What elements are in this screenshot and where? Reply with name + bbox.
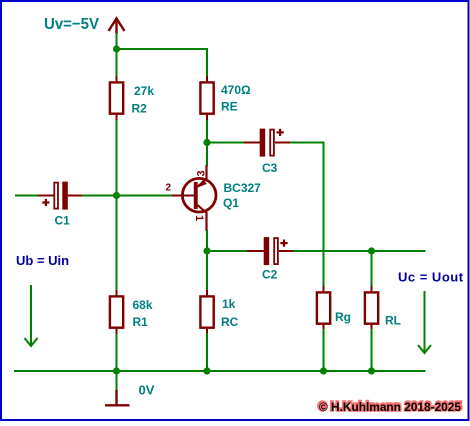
resistor RE pins [206,76,208,83]
node: emitter junction [203,139,210,146]
svg-text:1k: 1k [222,297,236,311]
wire: RC bottom [206,333,208,371]
capacitor C2 [264,237,278,265]
svg-text:470Ω: 470Ω [221,83,251,97]
resistor RL [365,292,378,323]
wire: Rg bottom [323,329,325,371]
wire: C3 right down to Rg [290,143,324,288]
svg-text:Rg: Rg [335,310,351,324]
svg-text:3: 3 [196,170,208,176]
power arrow (Uv supply) [109,18,125,34]
svg-text:2: 2 [166,183,172,194]
wire: C2 left [207,250,248,252]
wire: RL bottom [371,329,373,371]
input arrow [25,285,38,346]
svg-text:RL: RL [385,314,401,328]
transistor Q1 [172,178,217,213]
resistor RL pins [371,286,373,293]
resistor Rg [317,292,330,323]
svg-text:Uv=−5V: Uv=−5V [44,16,99,33]
svg-text:RC: RC [221,315,239,329]
ground [105,390,130,405]
node: Rg rail junction [320,367,327,374]
wire: left column bottom (R1 to 0V rail) [116,333,118,371]
capacitor C1 [54,182,68,210]
svg-text:RE: RE [221,100,238,114]
resistor R2 [110,82,123,113]
wire: ground drop [116,371,118,391]
svg-text:C3: C3 [262,161,278,175]
wire: C3 left [207,142,245,144]
capacitor C1 pins [38,195,54,197]
resistor RE [200,82,213,113]
node: RL rail junction [368,367,375,374]
resistor R1 pins [116,290,118,297]
node: power junction [113,45,120,52]
node: RC rail junction [203,367,210,374]
node: RL junction [368,247,375,254]
svg-text:C2: C2 [262,268,278,282]
node: ground junction [113,367,120,374]
plus mark C2 [280,240,287,247]
wire: base [117,195,173,197]
node: collector junction [203,247,210,254]
svg-text:R1: R1 [133,315,149,329]
output arrow [418,291,431,353]
wire: left column (R2 to R1) [116,120,118,291]
capacitor C2 pins [247,250,264,252]
svg-text:1: 1 [193,215,205,221]
svg-text:BC327: BC327 [224,181,262,195]
svg-text:27k: 27k [134,84,154,98]
wire: power column top (arrow to R2) [116,33,118,77]
wire: 0V rail [14,370,426,372]
resistor R1 [110,296,123,327]
svg-text:Ub = Uin: Ub = Uin [16,253,69,268]
svg-text:68k: 68k [133,298,153,312]
plus mark C1 [42,199,49,206]
svg-text:© H.Kuhlmann 2018-2025: © H.Kuhlmann 2018-2025 [319,400,461,414]
wire: RE to emitter (C3 tap) [206,120,208,166]
wire: output row [293,250,426,252]
plus mark C3 [277,129,284,136]
wire: input left [15,195,39,197]
svg-text:R2: R2 [132,102,148,116]
wire: C1 to base junction [82,195,117,197]
resistor RC pins [206,290,208,297]
svg-text:0V: 0V [139,383,155,398]
svg-text:Q1: Q1 [223,196,239,210]
wire: RL column top [371,251,373,287]
capacitor C3 pins [244,142,260,144]
capacitor C3 [260,129,274,157]
wire: collector down to RC [206,230,208,291]
svg-text:C1: C1 [55,213,71,227]
svg-text:Uc = Uout: Uc = Uout [398,270,464,285]
node: base junction [113,192,120,199]
resistor Rg pins [323,286,325,293]
resistor RC [200,296,213,327]
wire: top rail to RE column [117,49,208,77]
copyright [318,399,462,414]
resistor R2 pins [116,76,118,83]
transistor Q1 leads [205,165,207,179]
